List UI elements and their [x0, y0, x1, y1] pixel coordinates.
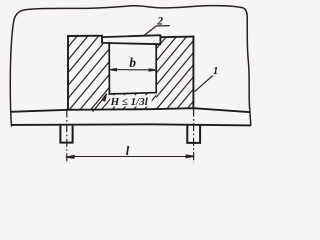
dimension b: line with outward arrowheads inside cavity: [110, 69, 156, 72]
right centre line (dash-dot): [193, 109, 195, 164]
dimension l between anchor centre lines: [66, 155, 195, 158]
svg-text:1: 1: [213, 66, 218, 77]
bottom plate band: top line (also bottom of block): [11, 108, 251, 112]
hatching of sectioned block: strip below cavity: [100, 34, 219, 112]
text H <= 1/3 l with white backing: [110, 95, 152, 106]
cavity walls and bottom: [109, 43, 156, 94]
svg-text:2: 2: [156, 16, 163, 28]
leader and label 1 (block): [195, 76, 213, 92]
hatching of sectioned block: right column: [83, 34, 249, 112]
freehand break-line border of surrounding body (top, left, right): [10, 6, 251, 126]
svg-text:H ≤ 1/3l: H ≤ 1/3l: [110, 96, 149, 108]
leader and label 2 (cover strip): [144, 26, 170, 36]
svg-text:l: l: [126, 144, 130, 158]
right anchor foot: [187, 125, 200, 143]
hatching of sectioned block: left column: [0, 34, 175, 112]
left centre line (dash-dot): [66, 110, 68, 164]
svg-text:b: b: [129, 55, 136, 70]
bottom plate band: bottom line: [11, 124, 251, 125]
block (item 1) outline: left edge, top edges, right edge: [68, 36, 193, 110]
cover strip (item 2) in rebate on top of cavity: [102, 35, 160, 44]
leader arrow for depth H pointing at cavity bottom corner: [93, 94, 107, 112]
left anchor foot: [60, 126, 72, 143]
